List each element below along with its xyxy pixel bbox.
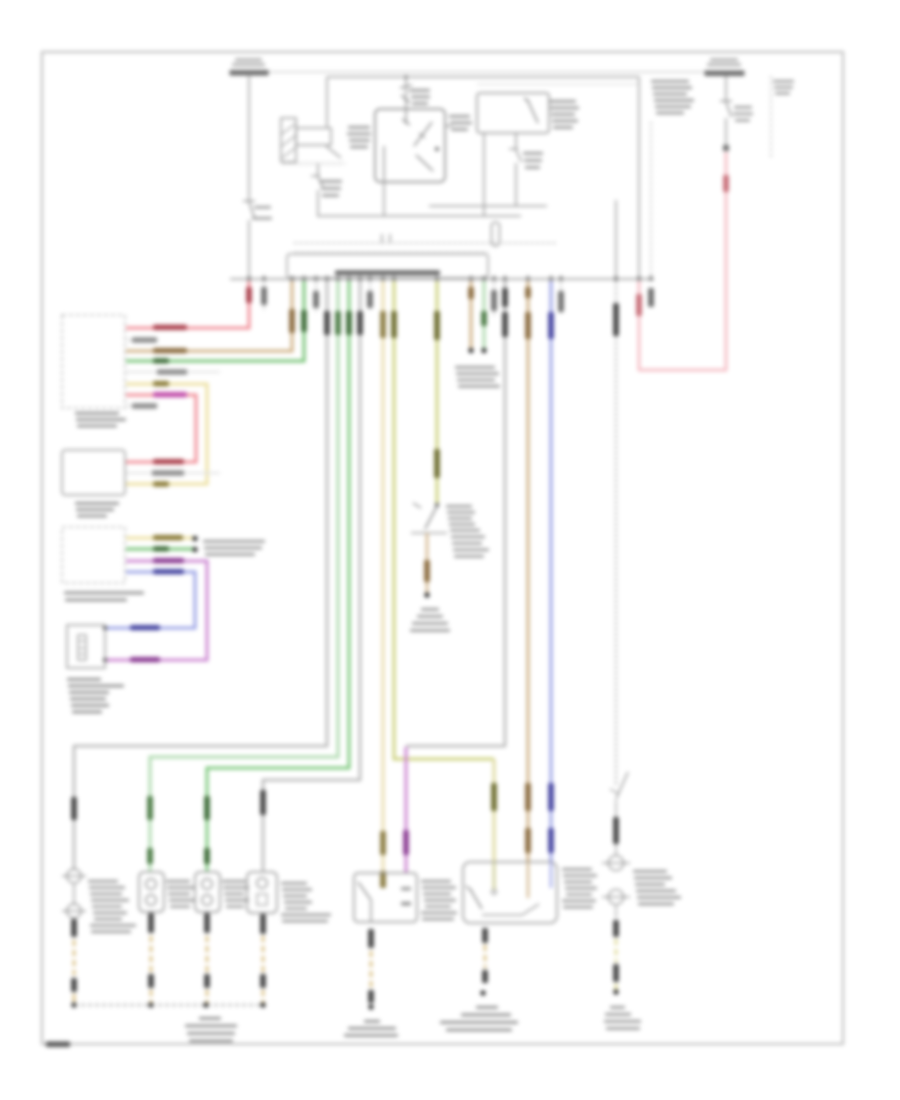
wire fuse F2 lower bbox=[725, 118, 727, 146]
lamp L3 box bbox=[247, 872, 277, 913]
wire below B4 bbox=[368, 929, 374, 948]
wire CHA drop to box B5 bbox=[493, 759, 496, 890]
wire TAN long to box B5 bbox=[527, 281, 530, 862]
splice S1 bbox=[723, 145, 729, 151]
light control assembly box bbox=[287, 254, 488, 278]
text module C note bbox=[203, 540, 265, 543]
relay box U1 bbox=[375, 109, 445, 182]
lamp L2 box bbox=[195, 872, 220, 912]
ground G3 text bbox=[364, 1020, 380, 1023]
module box C bbox=[62, 527, 125, 583]
text block headlight switch bbox=[651, 80, 689, 83]
wire GRY long to lamp 3 bbox=[263, 281, 360, 871]
wire WHT stub 4 bbox=[493, 281, 495, 316]
wire MAG drop to lamp box B4 bbox=[405, 747, 408, 873]
wire GRN long to lamp 2 bbox=[207, 281, 349, 871]
wire WHT stub 5 bbox=[560, 281, 562, 314]
module box A bbox=[62, 315, 125, 408]
connector C3 circle bbox=[609, 890, 624, 905]
wire VIO module C to motor bbox=[106, 561, 207, 660]
wire CHA to connector drop bbox=[394, 281, 494, 759]
wire PNK up to bus bbox=[638, 279, 641, 371]
wire CHA to switch S5 bbox=[436, 281, 439, 503]
dashed line below text bbox=[650, 122, 652, 279]
wire dashed stub below bus bbox=[648, 288, 654, 307]
dashed hot-at-all-times line bbox=[268, 71, 706, 73]
B4 lever bbox=[358, 882, 371, 900]
B4 text right bbox=[421, 880, 451, 883]
lamp box B5 bbox=[463, 862, 557, 923]
wire LTG stub to dot bbox=[483, 281, 486, 349]
node flasher junction bbox=[404, 75, 408, 79]
wire below L3 bbox=[260, 914, 266, 934]
switch S6 bbox=[616, 772, 628, 799]
wire below C4 bbox=[71, 919, 77, 937]
ground G5 text bbox=[476, 1006, 498, 1009]
motor box M1 bbox=[67, 625, 105, 668]
wire below L1 bbox=[148, 913, 154, 933]
wire WHT stub 2 bbox=[315, 281, 317, 312]
lamp box B4 bbox=[354, 873, 417, 922]
wire PNK horizontal bbox=[639, 369, 727, 372]
wire fuse F1 to bus bbox=[248, 220, 250, 279]
fuse F2 symbol bbox=[720, 100, 732, 102]
motor text bbox=[67, 678, 101, 681]
switch S2 flasher symbol bbox=[400, 85, 412, 88]
wire TAN dashed to ground bbox=[615, 904, 617, 918]
relay K1 lever bbox=[326, 146, 341, 158]
wire relay K1 output bbox=[317, 164, 319, 176]
relay K1 coil hatched box bbox=[281, 118, 296, 162]
U1 lever 2 bbox=[416, 155, 433, 171]
switch S5 bbox=[435, 503, 439, 507]
lamp L1 box bbox=[139, 872, 164, 912]
U2 lever bbox=[524, 98, 529, 102]
relay K1 contact frame bbox=[296, 128, 331, 145]
switch box U2 bbox=[477, 93, 549, 133]
ground G2 text bbox=[421, 608, 439, 611]
wire GRN to module A bbox=[126, 281, 304, 361]
node ground dot L2 bbox=[203, 1002, 208, 1007]
node ground dot B5 bbox=[480, 990, 485, 995]
connector C4 text bbox=[88, 880, 118, 883]
inline connector C4 bbox=[67, 869, 81, 883]
node ground dot right bbox=[613, 989, 618, 994]
U1 pin wire bbox=[405, 109, 407, 124]
ground G1 text bbox=[199, 1017, 221, 1020]
module B text bbox=[75, 502, 119, 505]
dashed option stub bbox=[770, 76, 772, 159]
wire VIO long to box B5 bbox=[550, 281, 553, 862]
wire switch feed vertical bbox=[615, 200, 617, 279]
wire fuse F1 down bbox=[248, 75, 250, 201]
U1 contact dot bbox=[435, 147, 439, 151]
wire GRY long to corner bbox=[504, 281, 507, 746]
switch S4 symbol bbox=[509, 148, 518, 150]
module C text bbox=[64, 592, 144, 595]
wire into relay K1 bbox=[326, 77, 328, 128]
text to-DRL note bbox=[455, 366, 495, 369]
wire below B5 bbox=[482, 928, 488, 943]
B5 lever bbox=[466, 886, 472, 891]
ground link dashed line bbox=[74, 1004, 263, 1006]
node motor pin dots bbox=[103, 626, 107, 630]
page marker bar bbox=[46, 1042, 70, 1048]
U1 lever contact bbox=[414, 122, 432, 146]
fuse F2 supply bar bbox=[705, 71, 745, 77]
wire WHT stub 3 bbox=[369, 281, 371, 310]
B5 inner vio wire bbox=[550, 862, 552, 888]
connector pill bbox=[492, 222, 500, 246]
dashed mech line bbox=[294, 242, 558, 244]
faint link line bbox=[477, 83, 638, 85]
node ground dot B4 bbox=[368, 1004, 373, 1009]
B4 terminal marks bbox=[401, 887, 411, 890]
wire GRY long to connector C1 bbox=[74, 281, 327, 870]
B5 text right bbox=[562, 868, 592, 871]
wire U2 left output bbox=[483, 133, 485, 216]
wire GRY corner horizontal bbox=[406, 745, 506, 748]
wire lower rail H2 bbox=[317, 215, 521, 217]
wire BLU module C to motor bbox=[106, 572, 195, 628]
B5 inner link bbox=[482, 914, 522, 916]
wire LT GRN long to lamp 1 bbox=[150, 281, 338, 871]
module box B bbox=[62, 450, 125, 495]
wire dashed GRY down bbox=[615, 281, 617, 787]
wire TAN below switch S5 bbox=[426, 533, 428, 593]
B4 inner wire bbox=[370, 900, 372, 922]
wire rail H1 bbox=[429, 205, 547, 207]
node ground dot L3 bbox=[260, 1002, 265, 1007]
connector bus line bbox=[230, 278, 654, 280]
node ground dot C4 bbox=[71, 1002, 76, 1007]
wire below S6 bbox=[615, 800, 617, 856]
wire top feed drop to bus bbox=[638, 77, 640, 279]
wire YEL module C stub bbox=[126, 537, 194, 540]
B5 inner contact wire bbox=[493, 862, 495, 890]
wire fuse F2 down bbox=[725, 76, 727, 101]
B5 inner tan wire bbox=[527, 862, 529, 898]
wire RED module A to B bbox=[126, 395, 196, 462]
wire TAN stub to dot bbox=[470, 281, 473, 349]
wire to lower rail bbox=[317, 190, 319, 216]
tick stubs bbox=[381, 234, 383, 243]
lamp L1 text bbox=[166, 880, 190, 883]
fuse F1 symbol bbox=[243, 200, 255, 202]
module A pin wires bbox=[126, 339, 158, 341]
switch S3 symbol bbox=[311, 175, 320, 177]
lamp L3 text bbox=[281, 882, 307, 885]
node splice dot green bbox=[481, 348, 486, 353]
wire U1 output to rail bbox=[383, 182, 385, 216]
fuse F1 supply bar bbox=[230, 70, 269, 76]
wire RED to module A bbox=[126, 281, 249, 328]
wire GRN module C stub bbox=[126, 548, 194, 551]
node ground dot bbox=[424, 592, 429, 597]
lamp L2 text bbox=[222, 880, 246, 883]
wire PNK fuse F2 feed bbox=[725, 152, 728, 371]
wire top feed horizontal bbox=[327, 76, 639, 78]
module B pin stub bbox=[126, 472, 220, 474]
ground G4 text bbox=[610, 1006, 625, 1009]
motor coil symbol bbox=[78, 635, 86, 660]
node splice dot tan bbox=[468, 348, 473, 353]
wire WHT stub 1 bbox=[263, 281, 265, 310]
wire U2 right output bbox=[515, 133, 517, 149]
U1 inner output wire bbox=[383, 146, 385, 182]
connector C2 circle bbox=[609, 856, 624, 871]
module A text bbox=[75, 412, 119, 415]
text headlight right bbox=[633, 870, 667, 873]
node ground dot L1 bbox=[148, 1002, 153, 1007]
wire TAN to module A bbox=[126, 281, 292, 351]
wire CRM long to lamp box B4 bbox=[382, 281, 385, 888]
wire YEL module A to B bbox=[126, 384, 207, 484]
relay K1 mech dashed line bbox=[283, 163, 345, 165]
wire below L2 bbox=[204, 913, 210, 933]
light control label bbox=[335, 271, 440, 276]
